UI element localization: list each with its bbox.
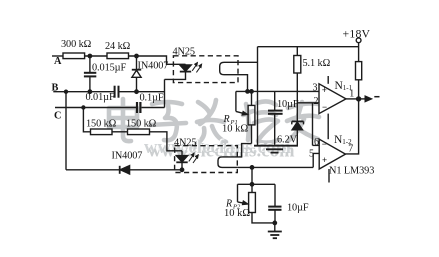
label N1-1 (335, 80, 353, 92)
resistor 5.1k (294, 47, 301, 122)
+18V rail (258, 46, 359, 48)
junction dot LED2 cathode (180, 168, 183, 171)
label N1-2 (334, 134, 352, 146)
junction dot Rp1 top (250, 90, 253, 93)
diode IN4007 bottom (120, 166, 130, 174)
svg-text:0.01µF: 0.01µF (86, 92, 115, 103)
svg-text:1-2: 1-2 (342, 138, 352, 146)
optocoupler U1 4N25 dashed box (173, 56, 238, 83)
wire LED1 cathode / B-C link column (164, 79, 166, 107)
capacitor 0.1uF (series on C) (137, 102, 140, 113)
junction dot Rp2 top cross (250, 183, 253, 186)
svg-text:−: − (322, 139, 327, 149)
Rp2 wiper loop (238, 184, 276, 202)
light arrows opto1 (192, 63, 201, 73)
junction dot ground node (273, 221, 276, 224)
capacitor 0.01uF (series on B) (115, 86, 119, 98)
wire 150k row to opto2 LED (150, 132, 183, 151)
potentiometer Rp2 (249, 167, 275, 223)
wire A row right (129, 56, 186, 64)
svg-text:+: + (322, 155, 327, 165)
svg-text:10µF: 10µF (277, 99, 299, 110)
phototransistor opto1 (220, 62, 239, 74)
wire C right to LED column (142, 107, 165, 109)
output junction dot (357, 97, 361, 101)
svg-text:N1 LM393: N1 LM393 (329, 166, 374, 177)
watermark www.elecfans.com (143, 137, 295, 161)
label Rp1 (222, 114, 248, 135)
wire pin2 to pin6 link (312, 103, 314, 146)
junction dot node2 (250, 166, 253, 169)
svg-text:2: 2 (314, 96, 319, 107)
capacitor 10uF top (268, 91, 283, 144)
svg-text:10 kΩ: 10 kΩ (224, 208, 250, 219)
node A (52, 55, 63, 57)
svg-text:0.1µF: 0.1µF (140, 93, 164, 104)
Rp1 wiper arrow (236, 111, 248, 115)
Rp1 wiper feed (235, 91, 237, 111)
light arrows opto2 (189, 153, 198, 163)
output arrow (359, 96, 380, 101)
resistor 24k (107, 53, 129, 59)
svg-text:IN4007: IN4007 (112, 151, 143, 162)
node B wire (53, 91, 114, 93)
wire bottom row left (66, 169, 119, 171)
svg-text:IN4007: IN4007 (138, 61, 169, 72)
svg-text:5: 5 (309, 149, 314, 160)
svg-text:C: C (54, 111, 61, 122)
op-amp N1-2 (319, 139, 345, 182)
LED of 4N25 #1 (165, 64, 192, 79)
op-amp polarity signs (322, 85, 327, 165)
node P3 wire (236, 90, 319, 92)
diode IN4007 top (132, 56, 141, 92)
watermark big characters (107, 97, 319, 144)
junction dot B-left column (65, 90, 68, 93)
svg-text:6: 6 (314, 137, 319, 148)
resistor 150k #1 (91, 129, 113, 135)
op-amp N1-1 (319, 76, 346, 139)
resistor 300k (63, 53, 85, 59)
wire pin2 (297, 102, 319, 104)
junction dot B-0.015 (88, 90, 91, 93)
phototransistor opto2 (218, 157, 237, 168)
wire pin6 (313, 144, 320, 146)
junction dot emitter (246, 90, 249, 93)
svg-text:3: 3 (313, 83, 318, 94)
svg-text:5.1 kΩ: 5.1 kΩ (303, 58, 331, 69)
LED of 4N25 #2 (176, 151, 187, 170)
wire pin5 riser (313, 153, 319, 167)
wire B right (119, 91, 164, 93)
svg-text:150 kΩ: 150 kΩ (126, 119, 157, 130)
wire B column down to bottom diode row (65, 92, 67, 170)
capacitor 0.015uF (84, 56, 96, 92)
svg-text:300 kΩ: 300 kΩ (61, 39, 92, 50)
svg-text:+18V: +18V (343, 27, 371, 41)
svg-text:4N25: 4N25 (173, 47, 195, 58)
svg-text:4N25: 4N25 (174, 138, 196, 149)
wire opto2 collector up to Rp1 bottom (231, 144, 252, 157)
wire between 150k resistors (112, 131, 128, 133)
+18V terminal (356, 38, 361, 62)
wire bottom row right to LED2 (130, 169, 182, 171)
node C wire (55, 107, 136, 109)
capacitor 10uF bottom (268, 184, 281, 223)
svg-text:www.elecfans.com: www.elecfans.com (144, 138, 291, 158)
potentiometer Rp1 (248, 91, 255, 143)
svg-text:10 kΩ: 10 kΩ (222, 124, 248, 135)
svg-text:10µF: 10µF (287, 203, 309, 214)
svg-text:−: − (322, 102, 327, 112)
svg-text:1-1: 1-1 (343, 84, 353, 92)
output pull-up resistor (356, 62, 362, 99)
resistor 150k #2 (128, 129, 150, 135)
label Rp2 (224, 199, 250, 220)
ground (268, 223, 282, 238)
wire A to 24k (85, 55, 107, 57)
svg-text:24 kΩ: 24 kΩ (105, 41, 131, 52)
junction dot A1 (88, 54, 91, 57)
wire opto1 collector to +18 bus (238, 61, 258, 63)
svg-text:150 kΩ: 150 kΩ (86, 119, 117, 130)
junction dot B-diode (135, 90, 138, 93)
svg-text:6.2V: 6.2V (277, 135, 298, 146)
wire C tap down to 150k row (83, 108, 90, 132)
svg-text:+: + (322, 85, 327, 95)
optocoupler U2 4N25 dashed box (175, 146, 238, 173)
zener diode 6.2V (292, 121, 304, 145)
svg-text:0.015µF: 0.015µF (92, 63, 127, 74)
+18V bus down (257, 47, 259, 146)
junction dot A2 (135, 54, 138, 57)
svg-text:B: B (52, 83, 59, 94)
wire opto1 emitter to node P3 (239, 75, 248, 92)
svg-text:A: A (54, 56, 62, 67)
node2 wire (emitter row to pin5) (237, 166, 313, 168)
wire N1-1 output (346, 98, 359, 100)
ground mid rail (254, 146, 298, 153)
wire N1-2 output riser (346, 99, 359, 154)
Rp2 wiper arrow (238, 201, 248, 204)
junction dot C-150k (82, 106, 85, 109)
